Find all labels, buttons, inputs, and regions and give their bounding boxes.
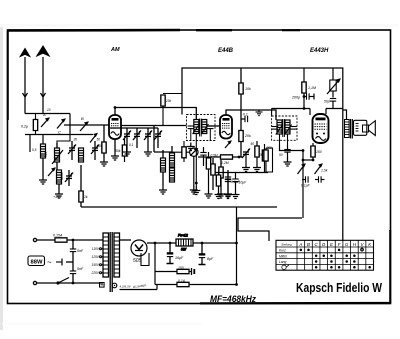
resistor R4 bbox=[211, 158, 215, 190]
wire: branch to output transformer bbox=[343, 110, 347, 120]
trimmer capacitor row C5 bbox=[123, 128, 131, 156]
svg-text:50: 50 bbox=[251, 142, 255, 146]
IF transformer T1 (dashed box) bbox=[187, 115, 216, 141]
svg-text:2k: 2k bbox=[258, 153, 263, 157]
capacitor C15 50pF bbox=[324, 99, 336, 109]
switch contact (V2 cathode) bbox=[225, 141, 231, 148]
capacitor C11 0,1uF bbox=[241, 113, 248, 123]
wire: V1 cathode down bbox=[114, 139, 116, 152]
band/switch table grid bbox=[276, 240, 374, 270]
svg-text:0,5M: 0,5M bbox=[211, 154, 218, 158]
electrolytic C22 8uF bbox=[199, 242, 214, 265]
resistor R13 bbox=[251, 141, 260, 164]
wire: V1 plate to top bbox=[114, 108, 116, 116]
svg-text:0,1: 0,1 bbox=[129, 143, 134, 147]
wire: chassis bus y=207 bbox=[81, 206, 277, 208]
svg-text:5nF: 5nF bbox=[77, 249, 84, 253]
svg-text:1k: 1k bbox=[84, 195, 88, 199]
capacitor C17 bbox=[279, 145, 292, 166]
svg-text:1,1M: 1,1M bbox=[308, 86, 316, 90]
scan artifact: bottom faint line bbox=[2, 323, 202, 325]
svg-text:200p: 200p bbox=[291, 96, 300, 100]
wire: drop x=70 bbox=[69, 114, 71, 135]
antenna 2 bbox=[37, 46, 49, 114]
tube V3 E443H (output) bbox=[313, 114, 329, 143]
mains terminal upper bbox=[33, 238, 36, 241]
table dots bbox=[300, 249, 371, 269]
coil L4 oscillator 3000 bbox=[57, 170, 65, 184]
wire: 505 filament loop bbox=[141, 253, 149, 266]
svg-text:1,5k: 1,5k bbox=[321, 169, 328, 173]
wire: mains top lead bbox=[37, 239, 103, 241]
svg-text:10: 10 bbox=[47, 108, 51, 112]
ground (line filter) bbox=[66, 261, 73, 263]
svg-text:10μF: 10μF bbox=[239, 181, 248, 185]
coil L2 with core bbox=[52, 143, 63, 164]
svg-text:A: A bbox=[298, 242, 302, 247]
svg-text:50: 50 bbox=[279, 153, 283, 157]
switch mark in row 1 column V bbox=[361, 247, 364, 252]
resistor R9 (in feedback loop) bbox=[266, 148, 273, 172]
table row labels bbox=[279, 249, 287, 265]
svg-text:Mittel: Mittel bbox=[279, 254, 287, 258]
svg-text:1,2M: 1,2M bbox=[221, 161, 229, 165]
trimmer capacitor C7 bbox=[144, 128, 152, 156]
node (B+ riser top) bbox=[235, 242, 238, 245]
switch contact A bbox=[41, 112, 49, 127]
resistor R8 1,1M bbox=[302, 82, 316, 109]
speaker LS bbox=[354, 120, 376, 135]
trimmer capacitor C8 bbox=[154, 128, 162, 148]
border frame of schematic sheet bbox=[8, 30, 391, 304]
filter choke CH1 bbox=[176, 234, 193, 252]
svg-text:MF=468kHz: MF=468kHz bbox=[210, 294, 256, 305]
svg-text:0,1: 0,1 bbox=[243, 113, 248, 117]
switch S2b bbox=[315, 164, 328, 174]
resistor R11 bbox=[155, 279, 237, 287]
scan artifact: top gray halo bbox=[0, 24, 398, 27]
output transformer T3 bbox=[345, 119, 353, 139]
table header letters bbox=[281, 242, 372, 247]
svg-text:4,2/6,3V: 4,2/6,3V bbox=[120, 285, 132, 289]
capacitor C13 bbox=[224, 173, 232, 199]
wire: IF2/AVC top link bbox=[272, 108, 310, 110]
svg-text:150: 150 bbox=[316, 150, 322, 154]
switch S1 (mains) bbox=[57, 278, 69, 285]
wire: detector line x=302 bbox=[280, 145, 304, 151]
svg-text:744: 744 bbox=[44, 152, 48, 158]
resistor R17 (osc feed) bbox=[161, 94, 182, 126]
svg-text:220V: 220V bbox=[91, 271, 100, 275]
svg-text:H: H bbox=[353, 242, 357, 247]
resistor R6 10k (screen feed) bbox=[239, 68, 251, 131]
svg-text:Kurz: Kurz bbox=[279, 249, 286, 253]
wire: B+ riser x=236 bbox=[236, 207, 238, 285]
wire: dropper feed x=155 bbox=[154, 243, 156, 285]
svg-text:C: C bbox=[315, 242, 319, 247]
svg-text:d.Lautspr.: d.Lautspr. bbox=[133, 283, 148, 289]
ground (V1 cathode) bbox=[111, 152, 119, 160]
tube V4 505 rectifier bbox=[131, 240, 147, 256]
svg-text:8μF: 8μF bbox=[207, 257, 214, 261]
mains terminal lower bbox=[33, 281, 36, 284]
svg-text:A: A bbox=[42, 112, 46, 117]
node (heater line) bbox=[235, 283, 238, 286]
wire: rectifier output bbox=[147, 242, 176, 244]
svg-text:AM: AM bbox=[110, 47, 120, 53]
wire: screen tap bbox=[303, 68, 305, 82]
svg-text:Fe=12: Fe=12 bbox=[178, 234, 188, 238]
svg-text:V: V bbox=[361, 242, 365, 247]
ground (under L1) bbox=[39, 158, 47, 184]
trimmer capacitor C2 bbox=[68, 141, 76, 160]
wire: vertical feed x=154 bbox=[153, 126, 155, 153]
wire: junction y=160 bbox=[303, 159, 313, 161]
tube V2 E44B (IF amp) bbox=[220, 115, 232, 139]
wire: AF line y=157 bbox=[198, 156, 239, 158]
svg-text:F: F bbox=[338, 242, 341, 247]
wire: choke to B+ bbox=[193, 242, 237, 244]
capacitor C10 bbox=[224, 170, 241, 198]
power transformer T4 bbox=[103, 232, 120, 292]
svg-text:E44B: E44B bbox=[218, 48, 234, 54]
svg-text:505: 505 bbox=[133, 258, 142, 264]
trimmer capacitor C12 bbox=[239, 149, 250, 164]
wire: transformer bottom links bbox=[100, 283, 158, 290]
wire: V1 plate bus to IF1 bbox=[115, 108, 196, 121]
capacitor C16a bbox=[301, 176, 311, 187]
svg-text:B: B bbox=[307, 242, 310, 247]
ground (osc coil) bbox=[53, 184, 63, 199]
phono symbol in last row bbox=[282, 265, 289, 270]
svg-text:C: C bbox=[58, 130, 61, 135]
wire: switch bus to trimmers bbox=[110, 127, 158, 129]
node (junction on AF line) bbox=[238, 156, 241, 159]
power rating box 88W bbox=[28, 256, 62, 267]
coil L6 bbox=[170, 146, 175, 182]
svg-text:5nF: 5nF bbox=[77, 267, 84, 271]
svg-text:G: G bbox=[345, 242, 349, 247]
svg-text:16μF: 16μF bbox=[175, 256, 184, 260]
wire: coil top link bbox=[154, 151, 172, 153]
svg-text:5W: 5W bbox=[181, 248, 187, 252]
resistor R14 bbox=[262, 144, 272, 173]
svg-text:~: ~ bbox=[47, 258, 52, 267]
capacitor C13b 10uF bbox=[232, 173, 248, 199]
wire: drop from bus to coils bbox=[29, 135, 31, 153]
resistor R15 bbox=[215, 173, 223, 199]
svg-text:E: E bbox=[330, 242, 333, 247]
coil L5 (IF osc) bbox=[159, 150, 167, 194]
fuse F1 0,15A bbox=[53, 234, 67, 243]
wire: HV winding to rectifier bbox=[120, 239, 132, 241]
wire: box left top bbox=[271, 109, 273, 117]
potentiometer P1 (volume) bbox=[190, 148, 198, 186]
switch S2a bbox=[298, 164, 306, 174]
svg-text:30: 30 bbox=[74, 138, 78, 142]
switch contact D bbox=[90, 134, 97, 143]
svg-text:150V: 150V bbox=[92, 263, 100, 267]
svg-text:0,5: 0,5 bbox=[32, 148, 37, 152]
resistor R3 0,3M bbox=[205, 152, 213, 198]
resistor R7 20k bbox=[239, 131, 251, 158]
electrolytic C21 16uF bbox=[167, 242, 184, 264]
capacitor C16b bbox=[315, 176, 325, 182]
ground (R13) bbox=[253, 164, 261, 172]
wire: HT top bus bbox=[182, 68, 343, 241]
svg-text:Lang: Lang bbox=[279, 260, 287, 264]
svg-text:125V: 125V bbox=[92, 255, 100, 259]
svg-text:110V: 110V bbox=[92, 247, 100, 251]
wire: antenna coil top feed bbox=[42, 135, 44, 145]
ground (pot) bbox=[190, 186, 198, 194]
wire: x=304 AF feed down bbox=[303, 107, 306, 110]
svg-text:B: B bbox=[81, 116, 84, 121]
wire: lower bus y=134.5 bbox=[25, 134, 93, 136]
wire: V3 plate to OT bbox=[326, 108, 343, 110]
node (AVC junction) bbox=[302, 149, 305, 152]
wire: bus y=172.5 bbox=[215, 172, 268, 174]
wire: coil to pot bbox=[172, 151, 189, 153]
svg-text:D: D bbox=[322, 242, 326, 247]
svg-text:0,15A: 0,15A bbox=[53, 234, 63, 238]
svg-text:50: 50 bbox=[97, 138, 101, 142]
scan artifact: left gray edge band bbox=[0, 24, 3, 330]
node (rectifier output junction) bbox=[154, 242, 157, 245]
switch contact (osc) bbox=[48, 168, 55, 176]
svg-text:+36V: +36V bbox=[53, 195, 62, 199]
svg-text:E443H: E443H bbox=[310, 48, 329, 54]
svg-text:20k: 20k bbox=[244, 134, 251, 138]
node (cathode junction) bbox=[302, 159, 305, 162]
resistor R12 1,2M (horizontal) bbox=[221, 155, 233, 165]
wire: grid bus y=125 to V1 bbox=[64, 124, 109, 126]
capacitor C20 5nF bbox=[70, 262, 84, 284]
svg-text:10k: 10k bbox=[245, 87, 251, 91]
antenna 1 bbox=[20, 49, 30, 114]
tube V1 ECH4 mixer bbox=[109, 115, 121, 139]
wire: V3 cathode chain bbox=[311, 143, 322, 160]
trimmer capacitor C3 bbox=[91, 141, 99, 160]
resistor R10 150 bbox=[155, 266, 194, 275]
svg-text:50k: 50k bbox=[97, 144, 103, 148]
svg-text:0,2μ: 0,2μ bbox=[21, 125, 28, 129]
transformer taps 110/125/150/220V bbox=[91, 247, 103, 275]
svg-text:50k: 50k bbox=[115, 149, 121, 153]
wire: grid drop to V3 bbox=[309, 109, 311, 116]
svg-text:88W: 88W bbox=[31, 260, 44, 266]
coil L1 antenna bbox=[41, 144, 46, 158]
wire: IF1 secondary return x=196.3 bbox=[195, 141, 197, 187]
svg-text:Kapsch Fidelio W: Kapsch Fidelio W bbox=[296, 281, 382, 295]
trimmer capacitor C6 bbox=[133, 128, 141, 148]
capacitor C14 200pF bbox=[291, 93, 314, 99]
svg-text:0,1A: 0,1A bbox=[178, 279, 186, 283]
ground (C12) bbox=[242, 164, 250, 172]
wire: aerial top bus y=113.5 bbox=[25, 113, 70, 115]
wire: oscillator section link bbox=[56, 162, 58, 170]
svg-text:Stellung: Stellung bbox=[281, 243, 292, 247]
node (V1 plate) bbox=[114, 106, 117, 109]
svg-text:50p: 50p bbox=[324, 100, 330, 104]
wire: IF1 secondary to V2 grid bbox=[207, 125, 220, 127]
capacitor 0,2uF (antenna coupling) bbox=[21, 114, 38, 135]
potentiometer P2 (tone, diagonal) bbox=[327, 68, 340, 98]
resistor R2 50k bbox=[97, 126, 108, 167]
svg-text:3000: 3000 bbox=[60, 172, 64, 180]
wire: V2 plate up bbox=[226, 110, 276, 120]
trimmer capacitor C4 bbox=[65, 170, 73, 186]
capacitor C9 bbox=[200, 147, 206, 166]
ground (IF1 left lead) bbox=[187, 143, 195, 151]
resistor R1 1k bbox=[79, 165, 88, 207]
switch contact C bbox=[57, 119, 65, 135]
switch contact B bbox=[80, 116, 88, 131]
coil L3 bbox=[79, 148, 84, 162]
capacitor C19 5nF bbox=[70, 239, 84, 262]
svg-text:150: 150 bbox=[178, 266, 184, 270]
resistor R5 bbox=[217, 160, 225, 198]
wire: mains bottom lead bbox=[37, 282, 103, 284]
wire: V3 plate riser bbox=[325, 109, 327, 115]
resistor R16 bbox=[182, 141, 186, 162]
wire: AF staircase to table bbox=[238, 218, 302, 241]
svg-text:K: K bbox=[368, 242, 372, 247]
resistor R2b 50k bbox=[115, 139, 127, 162]
svg-text:10k: 10k bbox=[166, 99, 172, 103]
IF transformer T2 (dashed box) bbox=[272, 116, 297, 145]
